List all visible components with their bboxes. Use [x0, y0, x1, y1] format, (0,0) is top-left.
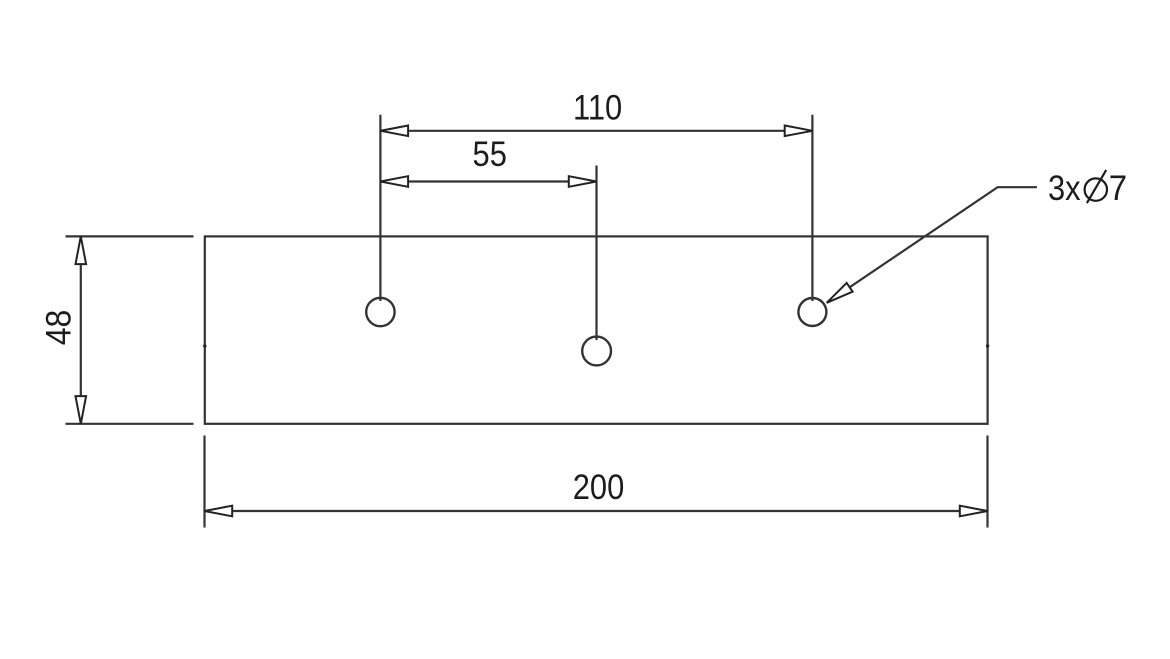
svg-text:3x: 3x — [1048, 169, 1081, 208]
svg-text:200: 200 — [573, 468, 625, 507]
svg-text:48: 48 — [39, 310, 79, 346]
svg-text:7: 7 — [1109, 169, 1127, 208]
svg-text:110: 110 — [573, 89, 622, 128]
svg-text:55: 55 — [473, 135, 507, 174]
